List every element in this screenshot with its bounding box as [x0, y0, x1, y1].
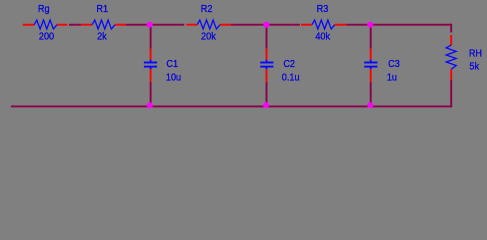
wire: C2 bottom lead [266, 69, 268, 81]
svg-text:R3: R3 [317, 3, 329, 15]
svg-text:0.1u: 0.1u [282, 72, 300, 84]
wire: C2 top lead [266, 49, 268, 60]
wire: top net R3 to RH (through C3 node) [346, 24, 452, 26]
wire: Rg left lead (input) [23, 24, 35, 26]
wire: R2 right lead [220, 24, 231, 26]
wire: C1 to bottom rail [150, 82, 152, 106]
svg-text:200: 200 [39, 31, 55, 43]
wire: right vertical net down to RH [450, 24, 452, 33]
svg-text:1u: 1u [387, 72, 397, 84]
svg-text:R2: R2 [201, 3, 213, 15]
wire: net between Rg and R1 [69, 24, 81, 26]
wire: top net down to C3 [370, 25, 372, 49]
wire: R3 right lead [335, 24, 347, 26]
wire: R2 left lead [186, 24, 197, 26]
svg-text:R1: R1 [96, 3, 108, 15]
resistor R2 [197, 20, 220, 29]
svg-text:C2: C2 [283, 58, 295, 70]
wire: R1 left lead [81, 24, 92, 26]
svg-text:20k: 20k [201, 31, 216, 43]
wire: top net down to C2 [266, 25, 268, 49]
wire: RH bottom lead [450, 69, 452, 79]
wire: top net R2 to R3 (through C2 node) [231, 24, 300, 26]
capacitor C3 [364, 60, 377, 70]
resistor R1 [92, 20, 115, 29]
junction dot: C1 top node [147, 22, 153, 28]
wire: RH top lead [450, 35, 452, 45]
resistor R3 [312, 20, 335, 29]
svg-text:40k: 40k [315, 31, 330, 43]
svg-text:RH: RH [469, 48, 482, 60]
wire: Rg right lead [57, 24, 68, 26]
wire: net RH to bottom rail [450, 80, 452, 107]
wire: C3 bottom lead [370, 69, 372, 81]
svg-text:5k: 5k [469, 61, 479, 73]
svg-text:C3: C3 [388, 58, 400, 70]
wire: top net down to C1 [150, 25, 152, 49]
capacitor C1 [144, 60, 157, 70]
resistor Rg [34, 20, 57, 29]
wire: bottom ground rail [11, 105, 452, 107]
wire: C3 top lead [370, 49, 372, 60]
wire: R3 left lead [301, 24, 312, 26]
svg-text:Rg: Rg [38, 3, 50, 15]
wire: C1 bottom lead [150, 69, 152, 81]
svg-text:2k: 2k [97, 31, 107, 43]
svg-text:10u: 10u [166, 72, 181, 84]
junction dot: C1 bottom node [147, 102, 153, 108]
junction dot: C2 bottom node [263, 102, 269, 108]
wire: C2 to bottom rail [266, 82, 268, 106]
capacitor C2 [260, 60, 273, 70]
wire: C3 to bottom rail [370, 82, 372, 106]
wire: top net R1 to R2 (through C1 node) [126, 24, 184, 26]
wire: R1 right lead [115, 24, 126, 26]
junction dot: C3 bottom node [367, 102, 373, 108]
junction dot: C2 top node [263, 22, 269, 28]
resistor RH [446, 45, 456, 69]
wire: C1 top lead [150, 49, 152, 60]
junction dot: C3 top node [367, 22, 373, 28]
svg-text:C1: C1 [166, 58, 178, 70]
